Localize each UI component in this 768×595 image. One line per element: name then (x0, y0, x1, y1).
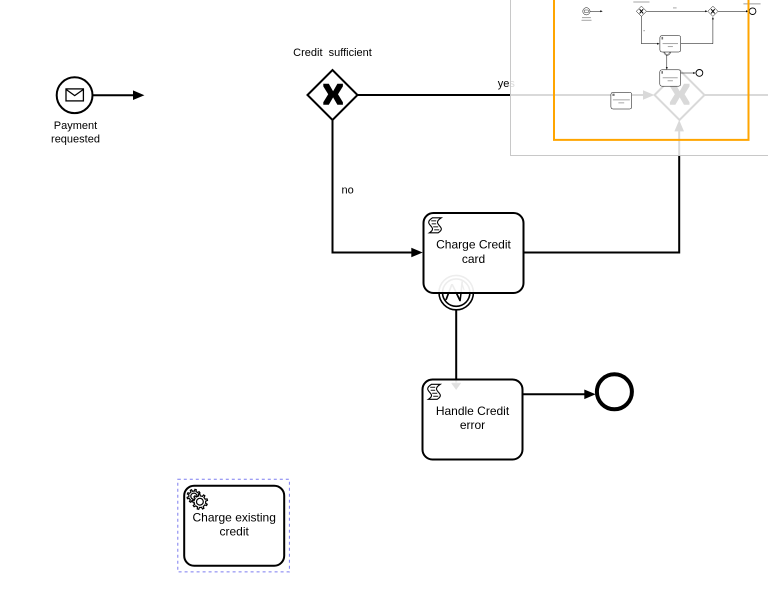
label: Payment requested (51, 120, 100, 145)
svg-text:credit: credit (220, 525, 250, 539)
gateway G2 (exclusive merge, under minimap overlay) (655, 70, 705, 120)
svg-text:Handle Credit: Handle Credit (436, 404, 510, 418)
boundary error event on Charge Credit card task (439, 275, 473, 309)
mini end event Payment received (749, 8, 756, 15)
mini gateway G1 (636, 6, 646, 16)
service task gears icon (187, 489, 201, 503)
task: Charge existing credit (service task, selected) (184, 486, 284, 566)
gateway G1 exclusive "Credit sufficient" (308, 70, 358, 120)
svg-text:card: card (462, 252, 485, 266)
svg-text:no: no (342, 184, 354, 196)
mini end event 2 (696, 70, 703, 77)
wire: sequence flow from Handle Credit error task to end event (524, 390, 596, 400)
mini flow task1 to G2 (681, 19, 713, 44)
script task icon (428, 384, 441, 399)
svg-text:Charge existing: Charge existing (193, 510, 276, 524)
wire: sequence flow from boundary error event down to Handle Credit error task (451, 310, 461, 390)
svg-text:requested: requested (51, 133, 100, 145)
mini task Charge existing credit (611, 92, 632, 109)
mini no flow (641, 16, 657, 43)
mini boundary event (664, 49, 671, 56)
minimap panel border (511, 0, 768, 156)
wire: sequence flow from start event (short dangling arrow) (93, 90, 145, 100)
selection outline around Charge existing credit (178, 479, 290, 572)
svg-text:Payment: Payment (54, 120, 97, 132)
mini start event (583, 8, 590, 15)
mini yes flow (647, 10, 706, 12)
mini task Charge Credit card (660, 36, 681, 52)
wire: sequence flow "no" from gateway G1 down to Charge Credit card task (333, 120, 423, 257)
minimap viewport rectangle (orange) (554, 0, 749, 140)
mini task Handle Credit error (660, 70, 681, 86)
mini label Credit sufficient (633, 2, 649, 3)
mini flow G2 to end (718, 10, 746, 12)
message envelope icon (66, 89, 83, 101)
task: Handle Credit error (script task) (423, 380, 523, 460)
wire: sequence flow from Charge Credit card task right edge up into gateway G2 (524, 120, 684, 253)
minimap content (582, 2, 761, 110)
start event: Payment requested (message start) (57, 77, 93, 113)
script task icon (429, 218, 442, 233)
mini gateway G2 (708, 6, 718, 16)
minimap overlay panel (translucent white) (511, 0, 768, 155)
faint arrowhead of incoming flow under task fill (451, 383, 461, 390)
task: Charge Credit card (script task) (424, 213, 524, 293)
mini label Payment requested (582, 17, 591, 18)
wire: sequence flow from gateway G2 to off-screen end event (705, 94, 768, 96)
mini flow from start (590, 10, 601, 12)
wire: sequence flow "yes" from gateway G1 to gateway G2 (358, 90, 655, 100)
end event (597, 374, 632, 409)
mini flow handle to end (681, 72, 694, 74)
svg-text:error: error (460, 418, 485, 432)
svg-text:Credit sufficient: Credit sufficient (293, 47, 372, 59)
mini flow boundary to handle (666, 55, 668, 67)
svg-text:Charge Credit: Charge Credit (436, 238, 511, 252)
